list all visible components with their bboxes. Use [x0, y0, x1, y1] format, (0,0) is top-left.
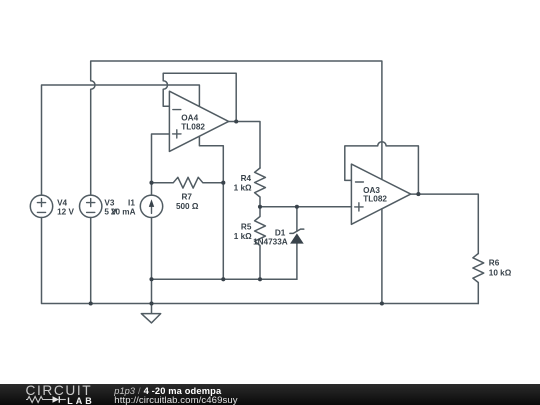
junction: OA4 output — [234, 119, 238, 123]
OA3 plus input sign — [355, 203, 363, 211]
junction: OA3 output — [416, 192, 420, 196]
svg-text:1 kΩ: 1 kΩ — [234, 232, 252, 241]
CircuitLab footer bar — [0, 384, 540, 405]
junction: V3 ground — [89, 301, 93, 305]
junction: R4/R5 node — [258, 205, 262, 209]
svg-text:1N4733A: 1N4733A — [253, 238, 288, 247]
junction: R5 bottom — [258, 277, 262, 281]
wire: OA4 VS- pin to R7 right vertical — [199, 136, 223, 279]
zener diode D1 body — [290, 233, 304, 243]
svg-text:V4: V4 — [57, 198, 67, 207]
svg-text:500 Ω: 500 Ω — [176, 202, 199, 211]
wire: OA3 VS- pin to ground rail — [381, 209, 383, 304]
wire: OA4 feedback loop output to - input with hop — [163, 73, 236, 121]
junction: ground node — [149, 301, 153, 305]
wire: lower mid rail — [152, 278, 297, 280]
resistor R4 — [255, 168, 266, 207]
wire: OA4 output to R4 top — [229, 122, 260, 169]
OA4 minus input sign — [173, 109, 181, 111]
current source I1 — [140, 195, 162, 217]
V4 minus sign — [37, 211, 45, 213]
op-amp OA4 — [169, 91, 228, 151]
svg-text:R7: R7 — [181, 193, 192, 202]
V4 plus sign — [37, 199, 45, 207]
junction: OA3 VS- ground — [380, 301, 384, 305]
junction: R7 right — [221, 181, 225, 185]
wire: R4/R5 junction to OA3 + input — [260, 206, 351, 208]
wire: D1 bottom to lower mid rail — [296, 244, 298, 280]
I1 arrow line — [151, 207, 153, 214]
zener diode D1 cathode bar — [290, 229, 304, 233]
I1 arrow head — [149, 199, 154, 207]
wire: V3 bottom to ground rail — [90, 218, 92, 304]
OA4 plus input sign — [173, 130, 181, 138]
svg-text:1 kΩ: 1 kΩ — [234, 184, 252, 193]
OA3 minus input sign — [356, 181, 364, 183]
op-amp OA3 — [351, 164, 410, 224]
svg-text:I1: I1 — [128, 198, 135, 207]
junction: I1 lower rail — [149, 277, 153, 281]
voltage source V4 — [30, 195, 52, 217]
svg-text:D1: D1 — [275, 228, 286, 237]
resistor R6 — [473, 254, 484, 304]
resistor R5 — [255, 207, 266, 279]
svg-text:OA4: OA4 — [181, 114, 198, 123]
svg-text:V3: V3 — [104, 198, 114, 207]
resistor R7 — [152, 177, 224, 188]
voltage source V3 — [80, 195, 102, 217]
svg-text:R4: R4 — [241, 174, 252, 183]
ground — [141, 304, 160, 323]
svg-text:10 kΩ: 10 kΩ — [489, 268, 512, 277]
svg-text:OA3: OA3 — [363, 186, 380, 195]
wire: V4 top to +V rail to OA4 VS+ pin — [42, 85, 200, 195]
svg-text:R5: R5 — [241, 222, 252, 231]
wire: V4 bottom, ground rail — [42, 218, 479, 304]
V3 plus sign — [87, 199, 95, 207]
wire: OA3 feedback loop output to - input — [345, 142, 419, 194]
junction: R7 left — [149, 181, 153, 185]
junction: VS- lower rail — [221, 277, 225, 281]
svg-text:TL082: TL082 — [181, 122, 205, 131]
wire: V3 top with hop, top rail, OA3 VS+ pin with hop — [91, 61, 382, 195]
V3 minus sign — [87, 211, 95, 213]
junction: D1 top node — [295, 205, 299, 209]
wire: D1 top — [296, 207, 298, 232]
svg-text:12 V: 12 V — [57, 208, 74, 217]
wire: I1 bottom to ground rail — [151, 218, 153, 304]
svg-text:TL082: TL082 — [363, 195, 387, 204]
wire: I1 top to OA4 + input — [152, 134, 170, 195]
svg-text:R6: R6 — [489, 259, 500, 268]
wire: OA3 output to R6 top — [411, 194, 479, 253]
svg-text:20 mA: 20 mA — [111, 208, 136, 217]
